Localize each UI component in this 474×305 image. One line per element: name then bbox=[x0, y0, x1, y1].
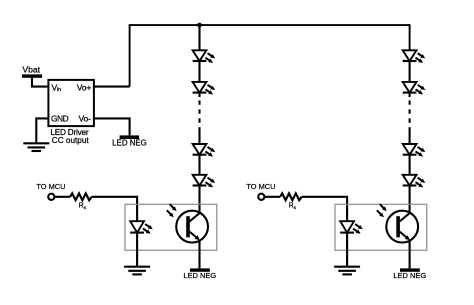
wire Vo+ pin to riser bbox=[94, 86, 130, 88]
light arrows into phototransistor Q1 (U2) bbox=[167, 204, 177, 217]
LED D3 bbox=[193, 144, 216, 157]
LED D8 bbox=[403, 175, 426, 188]
svg-text:CC output: CC output bbox=[52, 136, 90, 145]
wire opto LED cathode to ground (right) bbox=[346, 233, 348, 267]
dashed wire (more LEDs, right) bbox=[409, 100, 411, 123]
ground at opto LED (right) bbox=[334, 267, 360, 275]
wire rail to D1 bbox=[198, 25, 200, 50]
svg-text:TO MCU: TO MCU bbox=[246, 182, 275, 191]
wire emitter to LED NEG flag (left) bbox=[198, 240, 200, 269]
power flag LED NEG at driver output bbox=[112, 135, 147, 147]
power flag Vbat bbox=[22, 64, 42, 78]
phototransistor Q2 (U3) bbox=[386, 211, 418, 243]
wire Vbat to Vin bbox=[32, 78, 48, 87]
opto LED (U2) bbox=[130, 221, 153, 234]
wire D5 to D6 bbox=[409, 61, 411, 82]
terminal TO MCU (right) bbox=[246, 182, 275, 200]
LED D6 bbox=[403, 82, 426, 95]
ground at opto LED (left) bbox=[124, 267, 150, 275]
svg-text:LED NEG: LED NEG bbox=[393, 271, 426, 280]
phototransistor Q1 (U2) bbox=[176, 211, 208, 243]
resistor Rs (left) bbox=[70, 193, 92, 200]
power flag LED NEG (right string return) bbox=[393, 268, 426, 280]
dashed wire (more LEDs) bbox=[198, 100, 200, 123]
LED D5 bbox=[403, 50, 426, 63]
svg-text:Rs: Rs bbox=[79, 203, 87, 211]
LED D2 bbox=[193, 82, 216, 95]
power flag LED NEG (left string return) bbox=[183, 268, 216, 280]
wire GND pin to ground bbox=[36, 118, 48, 142]
wire Rs to opto LED anode bbox=[92, 197, 137, 222]
wire terminal to Rs bbox=[54, 196, 70, 198]
svg-text:Rs: Rs bbox=[289, 203, 297, 211]
wire top supply rail from Vo+ riser to right LED string bbox=[130, 25, 410, 87]
resistor Rs (right) bbox=[280, 193, 302, 200]
wire emitter to LED NEG flag (right) bbox=[409, 240, 411, 269]
wire D3 to D4 bbox=[198, 155, 200, 175]
svg-text:TO MCU: TO MCU bbox=[36, 182, 65, 191]
wire D6 to dashed continuation bbox=[409, 93, 411, 97]
node junction of left LED string on rail bbox=[197, 23, 202, 28]
wire Vo- to LED NEG flag bbox=[94, 118, 130, 135]
optocoupler U2 package outline bbox=[125, 204, 217, 250]
wire terminal to Rs (right) bbox=[264, 196, 280, 198]
light arrows into phototransistor Q2 (U3) bbox=[377, 204, 387, 217]
LED D4 bbox=[193, 175, 216, 188]
svg-text:Vo-: Vo- bbox=[78, 114, 91, 124]
opto LED (U3) bbox=[340, 221, 363, 234]
svg-text:Vo+: Vo+ bbox=[77, 82, 92, 92]
terminal TO MCU (left) bbox=[36, 182, 65, 200]
wire to D7 bbox=[409, 127, 411, 144]
LED D7 bbox=[403, 144, 426, 157]
svg-text:Vbat: Vbat bbox=[22, 64, 40, 74]
wire opto LED cathode to ground bbox=[136, 233, 138, 267]
svg-text:LED NEG: LED NEG bbox=[183, 271, 216, 280]
ground at driver GND bbox=[23, 143, 49, 151]
LED D1 bbox=[193, 50, 216, 63]
wire D1 to D2 bbox=[198, 61, 200, 82]
wire to D3 bbox=[198, 127, 200, 144]
LED driver U1 bbox=[48, 80, 94, 145]
wire D4 to phototransistor collector bbox=[198, 186, 200, 214]
wire D2 to dashed continuation bbox=[198, 93, 200, 97]
svg-text:GND: GND bbox=[51, 114, 69, 124]
optocoupler U3 package outline bbox=[335, 204, 427, 250]
wire D7 to D8 bbox=[409, 155, 411, 175]
wire D8 to phototransistor collector (right) bbox=[409, 186, 411, 214]
wire Rs to opto LED anode (right) bbox=[302, 197, 347, 222]
svg-text:LED NEG: LED NEG bbox=[112, 139, 147, 148]
